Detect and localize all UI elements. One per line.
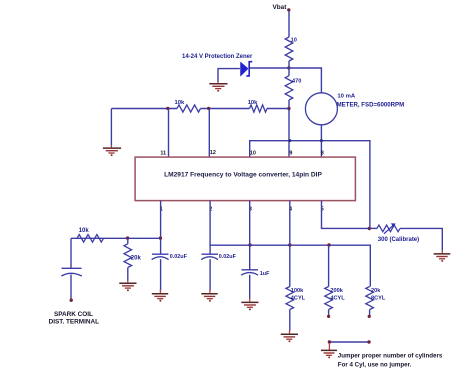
wire pin 4 column: [289, 201, 291, 287]
svg-text:10 mA: 10 mA: [337, 93, 355, 99]
svg-text:Jumper proper number of cylind: Jumper proper number of cylinders: [338, 353, 443, 360]
resistor R2 470: [285, 76, 301, 100]
wire: [288, 68, 290, 76]
resistor R5 10k input: [77, 228, 104, 242]
svg-text:470: 470: [292, 78, 301, 84]
IC U1 LM2917: [135, 157, 355, 201]
wire pin 5 to calibrate junction: [322, 201, 370, 229]
svg-text:20k: 20k: [371, 288, 381, 294]
svg-text:METER, FSD=6000RPM: METER, FSD=6000RPM: [337, 102, 405, 109]
wire supply to meter: [289, 68, 321, 93]
node junction rail pin3: [248, 243, 251, 246]
svg-text:1uF: 1uF: [260, 271, 270, 277]
wire ground stub top row: [110, 109, 112, 146]
node terminal 20k: [368, 315, 371, 318]
node junction supply: [287, 66, 290, 69]
capacitor C3 1uF: [241, 270, 270, 299]
capacitor C4 spark coil: [61, 238, 82, 299]
ground under zener: [209, 82, 227, 92]
wire pin 2 column: [209, 201, 211, 254]
ground under 20k: [119, 280, 136, 291]
svg-text:300 (Calibrate): 300 (Calibrate): [378, 237, 419, 243]
svg-text:11: 11: [160, 150, 166, 156]
svg-text:For 4 Cyl, use no jumper.: For 4 Cyl, use no jumper.: [338, 361, 412, 368]
resistor R3 10k: [175, 100, 201, 112]
ground right calibrate: [434, 250, 451, 262]
meter M1 10mA: [305, 93, 404, 125]
wire meter to pin 8: [320, 125, 322, 157]
node junction pin9 column: [287, 107, 290, 110]
wire pin 12 stub: [208, 109, 210, 157]
svg-text:4CYL: 4CYL: [330, 296, 345, 302]
wire: [288, 61, 290, 68]
resistor R10 20k 8CYL: [366, 287, 386, 316]
node jumper left: [328, 340, 331, 343]
wire: [267, 108, 289, 110]
node junction pin1 input: [159, 236, 162, 239]
svg-text:4CYL: 4CYL: [291, 296, 306, 302]
svg-text:8: 8: [321, 151, 324, 157]
node jumper right: [367, 340, 370, 343]
node junction calibrate: [368, 227, 371, 230]
wire: [201, 108, 250, 110]
label jumper note: [338, 353, 443, 369]
wire: [400, 228, 442, 250]
wire pin 1 column: [160, 201, 162, 254]
wire top row: [111, 108, 177, 110]
svg-text:200k: 200k: [330, 288, 343, 294]
svg-text:LM2917 Frequency to Voltage co: LM2917 Frequency to Voltage converter, 1…: [164, 172, 322, 179]
wire 470 to pin 9: [288, 100, 290, 157]
node junction rail 200k: [327, 243, 330, 246]
resistor R1 10: [285, 37, 297, 61]
wire: [218, 69, 240, 82]
ground under C2: [201, 290, 217, 302]
wire: [288, 11, 290, 38]
wire pin 11 stub: [168, 109, 170, 157]
wire rail: [210, 245, 370, 286]
node crossing pin9: [288, 139, 291, 142]
svg-text:14-24 V Protection Zener: 14-24 V Protection Zener: [182, 54, 253, 60]
svg-text:8CYL: 8CYL: [371, 296, 386, 302]
resistor R7 100k 4CYL: [286, 287, 306, 310]
node junction pin 12: [207, 107, 210, 110]
svg-text:0.02uF: 0.02uF: [170, 254, 188, 260]
svg-text:9: 9: [289, 151, 292, 157]
zener diode D1 14-24V protection: [182, 54, 253, 76]
svg-text:20k: 20k: [131, 256, 142, 262]
svg-text:10k: 10k: [248, 100, 258, 106]
svg-text:12: 12: [210, 150, 216, 156]
ground under C3: [241, 298, 258, 310]
ground under 100k: [281, 330, 298, 342]
wire input row: [71, 237, 161, 239]
ground left of IC: [103, 145, 121, 156]
capacitor C1 0.02uF: [152, 254, 188, 290]
wire pin 3 column: [249, 201, 251, 270]
node Vbat: [273, 4, 291, 12]
resistor R6 20k: [124, 238, 141, 267]
potentiometer R8 300 calibrate: [369, 223, 419, 243]
svg-text:10: 10: [291, 38, 297, 44]
svg-text:0.02uF: 0.02uF: [219, 254, 237, 260]
svg-text:SPARK COIL: SPARK COIL: [54, 311, 93, 318]
svg-text:Vbat: Vbat: [273, 4, 288, 11]
node crossing pin8: [320, 139, 323, 142]
resistor R4 10k: [248, 100, 267, 112]
node junction 20k tap: [126, 236, 129, 239]
node spark coil terminal: [70, 299, 73, 302]
svg-text:10k: 10k: [79, 228, 90, 234]
wire: [127, 268, 129, 281]
capacitor C2 0.02uF: [201, 254, 236, 290]
svg-text:10: 10: [250, 151, 256, 157]
wire: [250, 67, 289, 69]
node terminal 200k: [327, 315, 330, 318]
svg-text:DIST. TERMINAL: DIST. TERMINAL: [49, 318, 100, 325]
ground under C1: [152, 290, 168, 302]
wire feedback line pin10: [250, 141, 370, 229]
node junction pin 11: [166, 107, 169, 110]
label spark coil: [49, 311, 100, 325]
ground jumper: [321, 343, 337, 359]
node junction rail pin4: [288, 243, 291, 246]
resistor R9 200k 4CYL: [325, 245, 345, 315]
wire: [289, 310, 291, 332]
wire jumper: [329, 341, 369, 343]
svg-text:10k: 10k: [175, 100, 185, 106]
svg-text:100k: 100k: [291, 288, 304, 294]
